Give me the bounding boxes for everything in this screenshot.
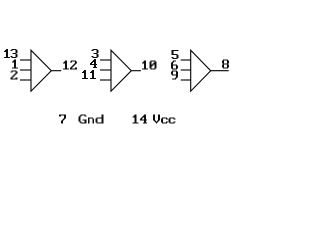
pin 13 label bbox=[4, 49, 18, 58]
power pin label 14 Vcc bbox=[133, 115, 176, 124]
pin 8 label bbox=[222, 60, 229, 69]
pin 2 label bbox=[11, 70, 18, 79]
wire input pin 5 bbox=[181, 59, 191, 61]
pin 9 label bbox=[171, 71, 178, 80]
pin 6 label bbox=[171, 60, 178, 69]
pin 11 label bbox=[82, 70, 96, 79]
gate U1C (3-input, pins 5,6,9 -> 8) bbox=[191, 50, 211, 91]
wire input pin 3 bbox=[100, 59, 111, 61]
wire input pin 9 bbox=[181, 79, 191, 81]
gate U1B (3-input, pins 3,4,11 -> 10) bbox=[111, 50, 131, 91]
wire input pin 1 bbox=[20, 69, 31, 71]
wire input pin 13 bbox=[20, 59, 31, 61]
pin 5 label bbox=[171, 50, 178, 59]
power pin label 7 Gnd bbox=[59, 115, 103, 124]
wire input pin 4 bbox=[100, 69, 111, 71]
pin 3 label bbox=[92, 49, 99, 58]
wire output pin 10 bbox=[131, 70, 141, 72]
pin 12 label bbox=[63, 60, 77, 69]
wire input pin 6 bbox=[181, 69, 191, 71]
wire output pin 8 bbox=[211, 70, 229, 72]
wire input pin 2 bbox=[20, 79, 31, 81]
pin 10 label bbox=[142, 60, 157, 69]
pin 4 label bbox=[90, 59, 97, 68]
wire output pin 12 bbox=[51, 70, 61, 72]
wire input pin 11 bbox=[100, 79, 111, 81]
gate U1A (3-input, pins 13,1,2 -> 12) bbox=[31, 50, 51, 91]
pin 1 label bbox=[12, 60, 18, 69]
